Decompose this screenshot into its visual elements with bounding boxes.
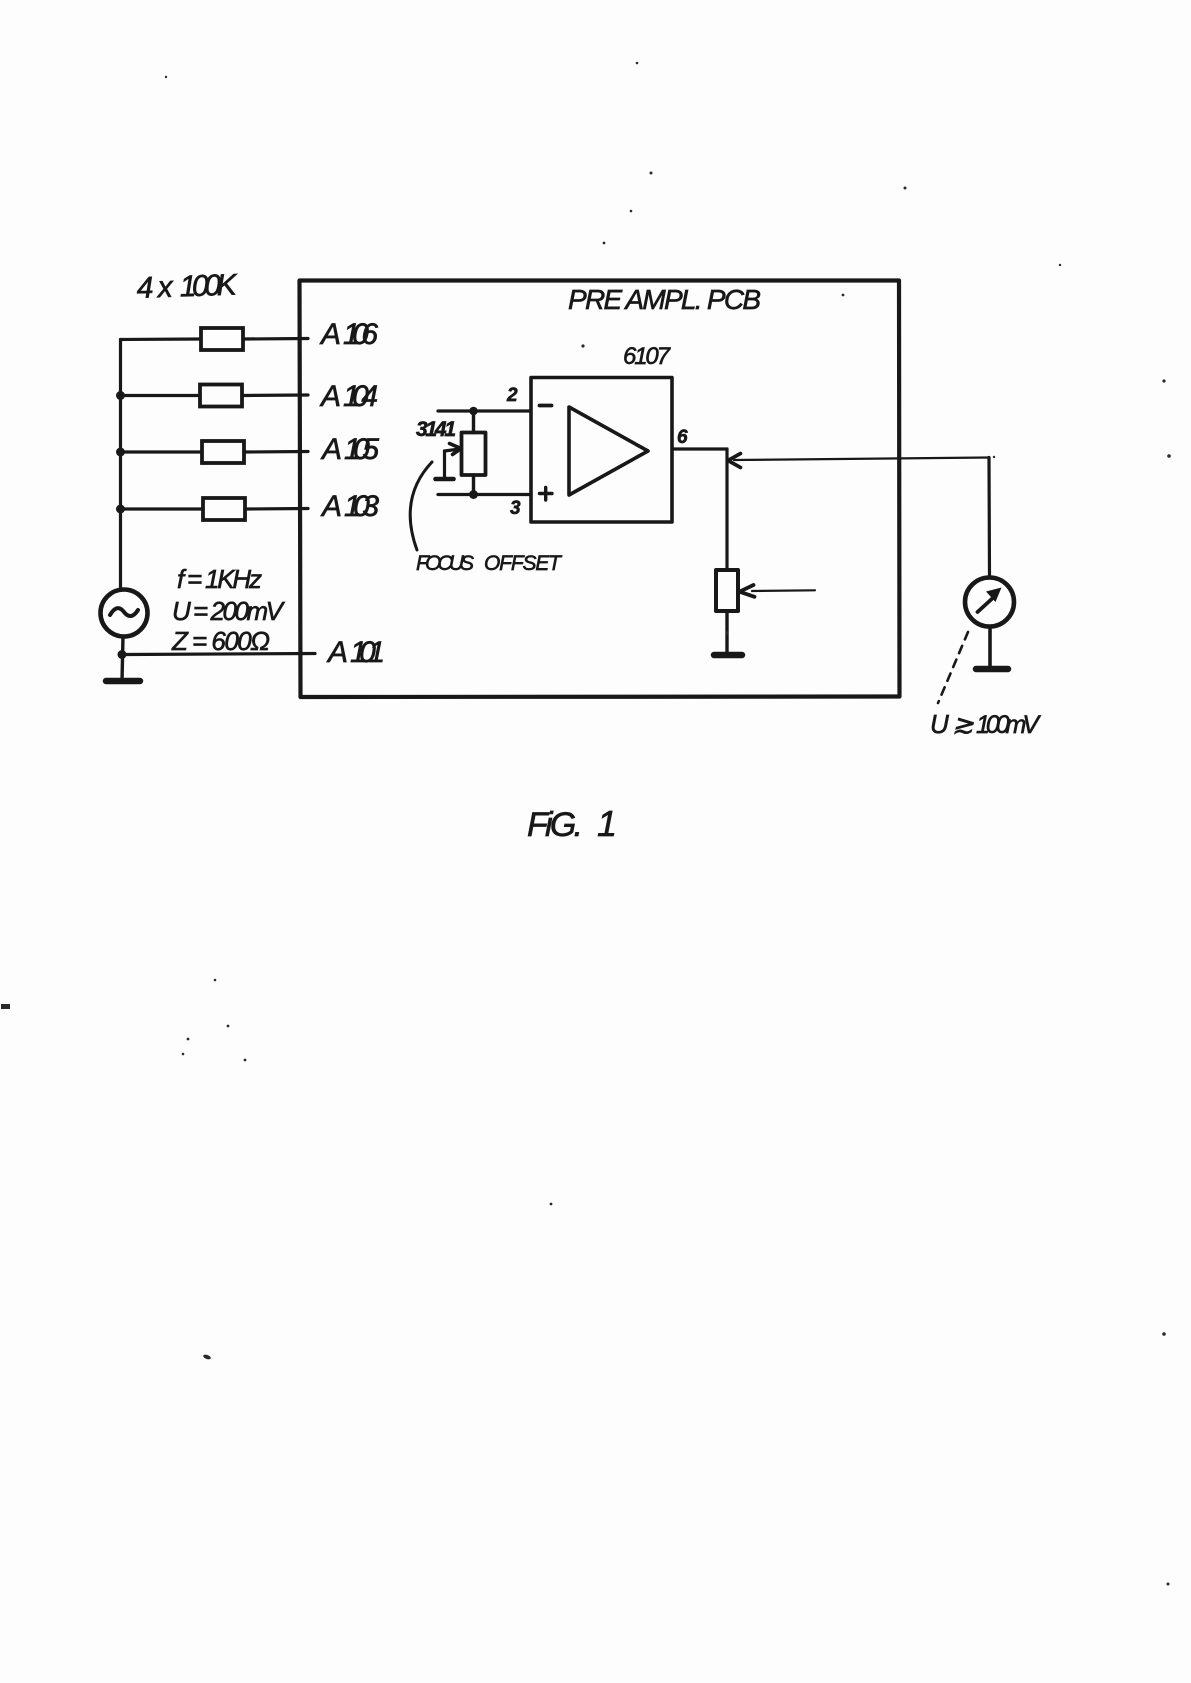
- svg-text:A: A: [320, 490, 342, 523]
- svg-text:A: A: [319, 380, 341, 413]
- svg-text:U = 200mV: U = 200mV: [172, 596, 286, 626]
- svg-text:105: 105: [344, 433, 379, 466]
- svg-text:f = 1KHz: f = 1KHz: [177, 564, 262, 594]
- svg-text:Z = 600Ω: Z = 600Ω: [171, 626, 270, 656]
- svg-text:U: U: [930, 709, 949, 739]
- svg-text:103: 103: [344, 490, 379, 523]
- svg-text:2: 2: [506, 385, 518, 406]
- svg-text:FOCUS: FOCUS: [416, 552, 474, 575]
- svg-text:A: A: [319, 318, 341, 351]
- svg-text:A: A: [326, 636, 348, 669]
- svg-text:PRE AMPL. PCB: PRE AMPL. PCB: [568, 284, 761, 315]
- svg-text:101: 101: [350, 636, 385, 669]
- svg-text:FiG.: FiG.: [527, 806, 583, 844]
- svg-text:100K: 100K: [179, 268, 239, 303]
- svg-text:OFFSET: OFFSET: [484, 552, 563, 575]
- svg-text:1: 1: [597, 803, 617, 844]
- svg-text:3: 3: [510, 498, 521, 519]
- svg-text:6: 6: [677, 427, 688, 448]
- svg-text:100mV: 100mV: [976, 711, 1041, 739]
- svg-text:104: 104: [343, 380, 378, 413]
- svg-text:3141: 3141: [416, 418, 456, 441]
- svg-text:A: A: [320, 433, 342, 466]
- svg-text:6107: 6107: [623, 343, 672, 370]
- svg-text:≳: ≳: [952, 709, 974, 739]
- svg-text:106: 106: [343, 318, 378, 351]
